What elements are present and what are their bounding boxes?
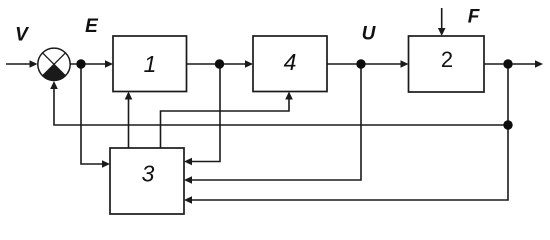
svg-text:V: V bbox=[15, 24, 29, 45]
svg-text:1: 1 bbox=[144, 51, 157, 77]
svg-text:3: 3 bbox=[142, 161, 155, 187]
svg-text:F: F bbox=[468, 6, 481, 27]
svg-text:2: 2 bbox=[441, 47, 453, 72]
svg-text:U: U bbox=[362, 24, 377, 45]
svg-text:4: 4 bbox=[284, 49, 297, 75]
svg-text:E: E bbox=[85, 16, 99, 37]
